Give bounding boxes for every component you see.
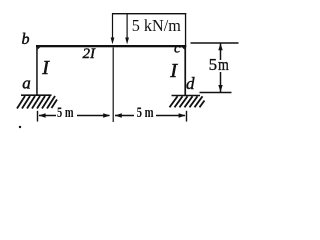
svg-text:d: d (186, 74, 195, 93)
svg-text:2I: 2I (83, 46, 97, 62)
svg-text:c: c (174, 41, 181, 57)
svg-text:I: I (169, 60, 178, 82)
svg-text:5 m: 5 m (137, 105, 154, 121)
svg-text:I: I (41, 57, 50, 79)
svg-text:5 m: 5 m (57, 105, 74, 121)
svg-text:a: a (22, 74, 31, 93)
svg-text:b: b (22, 31, 30, 48)
svg-text:5 kN/m: 5 kN/m (132, 16, 181, 35)
svg-text:5m: 5m (209, 55, 229, 74)
